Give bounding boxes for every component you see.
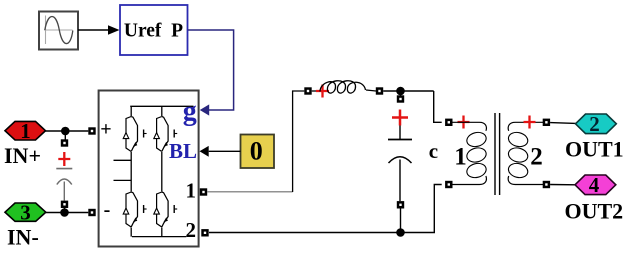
transformer T1 winding 1 red plus [458,116,470,129]
wire port to coil [312,90,320,92]
wire inductor to junction [383,90,434,92]
inductor L1 right port square [376,87,383,94]
input port IN+ hexagon [5,119,46,143]
svg-text:-: - [104,199,111,221]
input port IN- hexagon [5,200,46,224]
capacitor C2 bottom lead [399,160,401,202]
IGBT Q3 bottom-left [123,192,146,227]
sine wave source block [39,12,78,50]
transformer T1 winding 2 coil [508,122,543,131]
svg-text:2: 2 [589,112,600,136]
wire IN+ to bridge + [46,130,89,132]
port square bridge 1 [200,188,207,195]
svg-text:BL: BL [169,139,197,163]
DC link plate upper [114,159,132,161]
transformer T1 winding 2 top port square [543,119,550,126]
wire Uref to g port (blue) [188,30,234,110]
arrowhead into Uref [108,25,120,35]
svg-text:2: 2 [186,218,197,242]
svg-text:IN-: IN- [7,225,39,250]
inductor L1 red plus [316,85,329,98]
inductor L1 coil [320,81,366,93]
capacitor C2 curved plate [389,157,412,163]
capacitor C2 red plus [392,110,408,126]
wire 0 block to BL [209,150,241,152]
transformer T1 winding 1 bottom port square [445,181,452,188]
constant 0 block [241,135,275,169]
capacitor C1 top port square [61,139,68,146]
bridge right leg wire [161,106,163,236]
port square bridge - [88,209,95,216]
capacitor C2 top plate [388,139,412,141]
capacitor C2 top lead [399,126,401,140]
wire transformer to OUT1 [550,122,576,125]
capacitor C1 top plate [56,168,72,170]
svg-text:3: 3 [20,200,31,224]
block Uref P [120,5,188,55]
inductor L1 left port square [304,87,311,94]
wire coil to port [366,90,376,91]
svg-text:4: 4 [589,173,600,197]
bridge block body [99,91,199,247]
svg-text:0: 0 [250,137,263,166]
transformer T1 winding 2 bottom port square [543,181,550,188]
output port OUT1 hexagon [576,112,617,136]
arrowhead into g port [200,104,209,115]
capacitor C1 red plus [58,152,70,166]
bridge bottom rail [132,236,186,238]
node junction IN- [60,208,69,217]
node junction top bus [396,87,405,96]
IGBT Q4 bottom-right [154,192,177,227]
svg-text:Uref P: Uref P [124,21,183,42]
transformer T1 winding 1 top port square [445,119,452,126]
wire sine to Uref [78,29,110,31]
wire junction down to C2 [400,91,402,96]
bridge top rail [130,105,193,107]
wire top bus to transformer [434,91,442,122]
svg-text:OUT1: OUT1 [565,137,624,162]
capacitor C1 bottom port square [61,201,68,208]
wire transformer to OUT2 [550,184,576,186]
output port OUT2 hexagon [575,173,616,197]
wire junction down to C1 [64,131,66,140]
capacitor C1 curved plate [57,179,72,185]
svg-text:2: 2 [530,144,543,171]
port square bridge 2 [201,229,208,236]
svg-text:IN+: IN+ [4,143,41,168]
capacitor C2 bottom port square [397,201,404,208]
svg-text:c: c [429,139,438,163]
transformer T1 winding 2 red plus [524,116,536,129]
transformer T1 winding 1 coil [453,122,487,131]
arrowhead BL port [200,146,209,157]
IGBT Q2 top-right [154,117,177,152]
capacitor C2 top port square [397,95,404,102]
wire IN- to bridge - [46,212,88,214]
wire C2 to bottom bus [400,208,402,233]
IGBT Q1 top-left [123,117,146,152]
svg-text:1: 1 [20,119,31,143]
transformer T1 core [495,113,500,195]
wire bridge port 1 up to inductor [207,191,292,193]
svg-text:1: 1 [454,144,467,171]
DC link plate lower [114,179,132,181]
svg-text:+: + [100,119,111,141]
wire C1 to IN- line [64,208,66,213]
bridge left leg wire [130,106,132,236]
svg-text:g: g [183,96,197,127]
svg-text:OUT2: OUT2 [565,199,624,224]
capacitor C1 lead [63,182,65,201]
node junction bottom bus [396,228,405,237]
port square bridge + [88,127,95,134]
svg-text:1: 1 [186,178,197,202]
wire bridge port 2 bottom bus [209,185,442,233]
node junction IN+ [61,127,70,136]
